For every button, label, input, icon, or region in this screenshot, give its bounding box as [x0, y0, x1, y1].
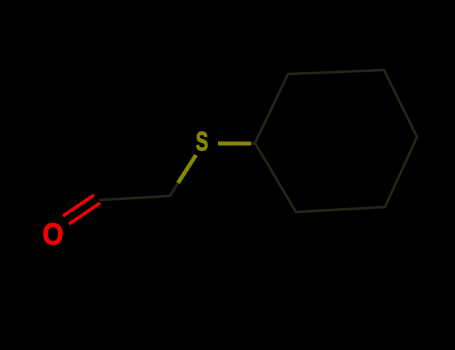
wire ring edge L-TL	[255, 74, 288, 143]
svg-text:S: S	[196, 127, 209, 157]
bond CH2-C(=O)	[99, 196, 170, 200]
C=O double bond line 1 (upper)	[63, 195, 94, 216]
bond S-ring (carbon half)	[251, 142, 255, 146]
wire ring edge R-BR	[385, 137, 417, 207]
svg-text:O: O	[43, 217, 64, 252]
bond S-CH2 (carbon half)	[170, 183, 178, 196]
cyclohexane/phenyl ring outline (very dark carbon bonds)	[255, 70, 417, 212]
wire ring edge BR-BL	[296, 207, 385, 212]
wire ring edge BL-L	[255, 143, 296, 212]
bond S-ring (olive half)	[218, 142, 251, 146]
C=O double bond line 2 (lower)	[69, 203, 100, 224]
wire ring edge TL-TR	[288, 70, 384, 74]
bond S-CH2 (olive half)	[178, 155, 196, 183]
wire ring edge TR-R	[384, 70, 417, 137]
